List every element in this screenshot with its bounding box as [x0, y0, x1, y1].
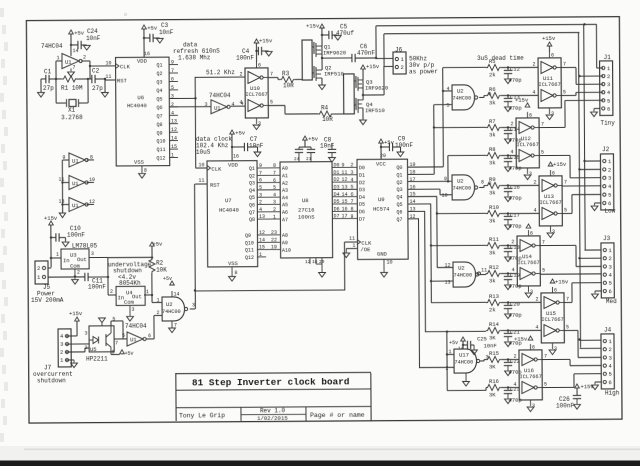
power +15v U16 — [528, 336, 533, 340]
svg-text:D3: D3 — [333, 184, 339, 190]
svg-text:1: 1 — [56, 252, 59, 258]
svg-text:12: 12 — [171, 127, 177, 133]
svg-text:+15v: +15v — [69, 310, 83, 317]
svg-text:14: 14 — [173, 291, 179, 297]
svg-text:+15v: +15v — [542, 35, 556, 42]
svg-text:U2: U2 — [458, 264, 465, 271]
svg-text:5: 5 — [566, 324, 569, 330]
svg-text:HC4040: HC4040 — [219, 206, 239, 213]
svg-text:3: 3 — [60, 341, 63, 348]
inverter bank U1d — [69, 197, 85, 211]
svg-text:U1: U1 — [65, 58, 72, 65]
svg-text:3: 3 — [259, 192, 262, 198]
resistor R7 — [486, 124, 501, 130]
wire U11 pin5 to J1 pin4 — [561, 94, 576, 96]
svg-text:CLK: CLK — [120, 63, 131, 70]
U8 enable pins — [309, 258, 311, 264]
svg-text:16: 16 — [342, 206, 348, 212]
svg-text:13: 13 — [341, 184, 347, 190]
svg-text:Q9: Q9 — [245, 233, 251, 239]
svg-text:7: 7 — [564, 179, 567, 185]
svg-text:100nF: 100nF — [556, 402, 574, 409]
power +15v C10 — [49, 221, 54, 225]
svg-text:C3: C3 — [161, 22, 169, 29]
power +15v U10 — [254, 39, 259, 43]
svg-text:RST: RST — [117, 77, 128, 84]
svg-text:10nF: 10nF — [159, 29, 174, 36]
svg-text:VDD: VDD — [228, 161, 239, 168]
svg-text:Q9: Q9 — [157, 130, 163, 136]
svg-text:IRF9620: IRF9620 — [365, 84, 388, 91]
svg-text:J3: J3 — [603, 235, 611, 242]
capacitor C5 — [322, 34, 329, 36]
svg-text:2: 2 — [156, 310, 159, 316]
svg-text:VSS: VSS — [228, 260, 239, 267]
gate U2a 74HC00 — [452, 85, 475, 110]
svg-text:7: 7 — [544, 354, 547, 360]
svg-text:Q3: Q3 — [249, 181, 255, 187]
wire U11 pin7 to J1 pin3 — [561, 66, 576, 68]
svg-text:2: 2 — [60, 349, 63, 356]
svg-text:Low: Low — [604, 207, 615, 214]
gate U17 74HC00 — [454, 349, 477, 373]
wire U14 pin5 to J3 pin4 — [540, 273, 601, 275]
svg-text:11: 11 — [481, 267, 487, 273]
capacitor C14 — [501, 126, 512, 128]
svg-text:2: 2 — [533, 179, 536, 185]
svg-text:2k: 2k — [489, 306, 496, 313]
svg-text:9: 9 — [259, 163, 262, 169]
svg-text:Q12: Q12 — [156, 156, 165, 162]
svg-text:3K: 3K — [489, 363, 496, 370]
transistor Q4 IRF510 — [355, 98, 357, 110]
wire U13 pin5 to J2 pin5 — [562, 212, 572, 214]
resistor R12 — [486, 270, 501, 276]
ground J1 pin6 — [594, 107, 599, 109]
svg-text:2: 2 — [513, 354, 516, 360]
ground C1 — [40, 79, 42, 92]
svg-text:Com: Com — [124, 299, 135, 306]
wire Q0 to gate — [442, 90, 444, 92]
power +15v U12 — [525, 103, 530, 107]
svg-text:11: 11 — [341, 170, 347, 176]
ground U16 pin3 — [527, 407, 534, 412]
title block box — [176, 372, 371, 373]
wire U3 out to U4 — [107, 258, 109, 295]
svg-text:10nF: 10nF — [249, 142, 264, 149]
counter U7 HC4040 — [207, 161, 258, 267]
resistor R15 — [486, 356, 501, 362]
gate drive box upper — [302, 40, 312, 80]
svg-text:13: 13 — [444, 279, 450, 285]
svg-text:6: 6 — [608, 379, 611, 386]
svg-text:2: 2 — [77, 270, 80, 276]
svg-text:A6: A6 — [282, 210, 288, 216]
capacitor C16 — [501, 184, 512, 186]
svg-text:9: 9 — [444, 176, 447, 182]
svg-text:Q5: Q5 — [249, 195, 255, 201]
svg-text:R8: R8 — [489, 146, 496, 153]
svg-text:10: 10 — [105, 60, 111, 66]
svg-text:2: 2 — [445, 365, 448, 371]
svg-text:10uS: 10uS — [196, 149, 211, 156]
ground U1 pin7 — [70, 68, 72, 71]
svg-text:U1: U1 — [72, 202, 79, 209]
svg-text:Q2: Q2 — [157, 71, 163, 77]
svg-text:R7: R7 — [489, 118, 496, 125]
svg-text:4: 4 — [273, 192, 276, 198]
svg-text:3: 3 — [205, 102, 208, 108]
svg-text:4: 4 — [447, 86, 450, 92]
svg-text:11: 11 — [349, 236, 355, 242]
svg-text:470p: 470p — [509, 312, 522, 319]
svg-text:27p: 27p — [92, 85, 103, 92]
power +5v U9 — [379, 139, 384, 143]
svg-text:IRF510: IRF510 — [324, 70, 344, 77]
svg-text:8: 8 — [481, 179, 484, 185]
wire Q6 bus — [408, 210, 425, 212]
inverter bank U1b — [69, 153, 85, 167]
svg-text:12: 12 — [305, 259, 311, 265]
svg-text:+5v: +5v — [163, 276, 172, 282]
svg-text:100nF: 100nF — [395, 142, 413, 149]
wire U15 pin5 to J4 pin3 — [564, 329, 578, 331]
svg-text:4: 4 — [513, 382, 516, 388]
wire rail to J3 pin1 — [585, 249, 601, 251]
svg-text:2: 2 — [532, 61, 535, 67]
ground J3 pin6 — [595, 290, 601, 292]
wire U14 pin7 to J3 pin3 — [540, 244, 576, 246]
svg-text:470p: 470p — [508, 105, 521, 112]
svg-text:6: 6 — [532, 345, 535, 351]
driver U13 ICL7667 — [539, 176, 562, 226]
svg-text:Q8: Q8 — [249, 217, 255, 223]
capacitor C22 — [501, 358, 512, 360]
svg-text:100nF: 100nF — [67, 231, 85, 238]
wire rail to J3 pin2 — [578, 257, 580, 259]
svg-text:2: 2 — [536, 296, 539, 302]
svg-text:VDD: VDD — [137, 57, 148, 64]
svg-text:4: 4 — [240, 99, 243, 105]
wire clk to U6 — [90, 65, 115, 67]
wire Q3 bus — [407, 188, 439, 190]
capacitor C15 — [501, 154, 512, 156]
wire rail to J4 pin2 — [580, 347, 601, 349]
ground U5 top — [101, 322, 103, 325]
svg-text:21: 21 — [306, 156, 312, 162]
svg-text:U12: U12 — [521, 135, 531, 142]
capacitor C4 — [256, 50, 258, 52]
svg-text:R12: R12 — [489, 264, 499, 271]
capacitor C9 — [381, 146, 389, 148]
svg-text:9: 9 — [342, 162, 345, 168]
svg-text:A7: A7 — [282, 217, 288, 223]
svg-text:U2: U2 — [166, 301, 173, 308]
scan left edge marks — [0, 8, 4, 17]
svg-text:7: 7 — [72, 64, 75, 70]
svg-text:+5v: +5v — [147, 24, 158, 31]
svg-text:2: 2 — [351, 163, 354, 169]
svg-text:Q10: Q10 — [156, 139, 165, 145]
power +5v R2 — [150, 242, 155, 246]
svg-text:U8: U8 — [302, 197, 309, 204]
svg-text:13: 13 — [259, 214, 265, 220]
svg-text:ICL7667: ICL7667 — [539, 200, 561, 206]
EPROM U8 27C16 — [280, 162, 333, 258]
svg-text:9: 9 — [171, 60, 174, 66]
ground C2 node — [104, 78, 106, 80]
svg-text:2: 2 — [607, 73, 610, 80]
svg-text:8: 8 — [144, 167, 147, 173]
wire rail to J1 pin2 — [580, 75, 603, 77]
svg-text:R4: R4 — [321, 104, 329, 111]
svg-text:U1: U1 — [72, 180, 79, 187]
ground U14 pin3 — [525, 293, 532, 298]
svg-text:D1: D1 — [359, 173, 365, 179]
svg-text:3k: 3k — [489, 131, 496, 138]
svg-text:8: 8 — [234, 270, 237, 276]
svg-text:3k: 3k — [489, 277, 496, 284]
svg-text:+5v: +5v — [449, 340, 458, 346]
capacitor C20 — [501, 301, 512, 303]
svg-text:RST: RST — [210, 182, 221, 189]
svg-text:+5v: +5v — [308, 135, 319, 142]
svg-text:ICL7667: ICL7667 — [538, 82, 560, 88]
svg-text:1: 1 — [352, 243, 355, 249]
svg-text:3: 3 — [608, 354, 611, 361]
svg-text:100nF: 100nF — [88, 283, 106, 290]
svg-text:D3: D3 — [359, 187, 365, 193]
resistor R1 — [56, 78, 62, 80]
svg-text:2: 2 — [511, 239, 514, 245]
svg-text:3: 3 — [192, 302, 195, 308]
svg-text:HC4040: HC4040 — [127, 102, 147, 109]
optocoupler U5 HP2211 — [89, 326, 114, 352]
wire Q1 drain node — [321, 46, 323, 70]
capacitor C17 — [501, 212, 512, 214]
svg-text:10nF: 10nF — [86, 35, 101, 42]
svg-text:IRF9620: IRF9620 — [323, 49, 346, 56]
svg-text:Q7: Q7 — [249, 210, 255, 216]
svg-text:11: 11 — [199, 178, 205, 184]
svg-text:Q6: Q6 — [249, 202, 255, 208]
svg-text:6: 6 — [552, 170, 555, 176]
wire inverter to gate — [153, 316, 155, 339]
svg-text:74HC04: 74HC04 — [209, 92, 231, 99]
svg-text:7: 7 — [566, 296, 569, 302]
resistor R4 — [318, 111, 333, 117]
scan bottom light strip — [0, 446, 640, 461]
capacitor C3 — [144, 37, 150, 39]
svg-text:15V 200mA: 15V 200mA — [31, 297, 64, 304]
resistor R2 — [149, 258, 155, 273]
svg-text:3.2768: 3.2768 — [61, 114, 83, 121]
ground U3 com — [74, 269, 76, 279]
svg-text:74HC00: 74HC00 — [452, 95, 471, 101]
svg-text:4: 4 — [535, 324, 538, 330]
svg-text:Page # or name: Page # or name — [310, 412, 365, 419]
resistor R13 — [486, 299, 501, 305]
svg-text:+15v: +15v — [553, 161, 567, 168]
wire U16 pin7 to J4 pin4 — [542, 358, 570, 360]
svg-text:470uf: 470uf — [336, 30, 354, 37]
svg-text:5: 5 — [447, 102, 450, 108]
svg-text:+5v: +5v — [124, 351, 133, 357]
svg-text:D4: D4 — [334, 192, 340, 198]
power +15v U15 — [550, 279, 555, 283]
svg-text:J2: J2 — [602, 146, 610, 153]
wire U13 pin7 to J2 pin4 — [562, 185, 600, 187]
svg-text:D0: D0 — [334, 162, 340, 168]
power +15v U13 — [548, 162, 553, 166]
svg-text:D1: D1 — [333, 170, 339, 176]
svg-text:Q4: Q4 — [396, 195, 402, 201]
svg-text:R9: R9 — [489, 176, 496, 183]
svg-text:3k: 3k — [489, 249, 496, 256]
ground J4 pin6 — [595, 381, 601, 383]
wire U15 pin7 to J3 pin5 — [564, 301, 572, 303]
wire RST — [105, 79, 115, 81]
svg-text:R11: R11 — [489, 236, 500, 243]
svg-text:6: 6 — [551, 52, 554, 58]
svg-text:7: 7 — [563, 61, 566, 67]
resistor R14 — [486, 327, 501, 333]
wire 30v rail A2 — [583, 23, 585, 25]
svg-text:Q10: Q10 — [245, 240, 254, 246]
svg-text:as power: as power — [409, 68, 438, 75]
svg-text:Q1: Q1 — [156, 63, 162, 69]
counter U6 HC4040 — [116, 57, 170, 166]
svg-text:+15v: +15v — [44, 215, 58, 222]
svg-text:C17: C17 — [510, 212, 520, 219]
ground Q2 source — [321, 78, 323, 84]
svg-text:6: 6 — [259, 178, 262, 184]
svg-text:5: 5 — [259, 185, 262, 191]
wire rail to J2 pin1 — [583, 160, 585, 162]
svg-text:6: 6 — [258, 63, 261, 69]
svg-text:12: 12 — [444, 262, 450, 268]
svg-text:X1: X1 — [68, 106, 76, 113]
svg-text:1: 1 — [146, 289, 149, 295]
capacitor C10 — [51, 236, 56, 238]
svg-text:U10: U10 — [250, 85, 260, 92]
svg-text:U14: U14 — [522, 253, 533, 260]
ground U13 pin3 — [547, 233, 554, 238]
svg-text:10nF: 10nF — [484, 342, 497, 349]
transistor Q1 IRF9620 — [313, 42, 315, 54]
svg-text:2k: 2k — [489, 71, 496, 78]
svg-text:3K: 3K — [489, 334, 496, 341]
svg-text:5: 5 — [171, 85, 174, 91]
svg-text:74HC00: 74HC00 — [162, 309, 181, 315]
driver U14 ICL7667 — [517, 236, 540, 286]
svg-text:R2: R2 — [156, 259, 164, 266]
svg-text:U1: U1 — [214, 105, 221, 112]
wire shutdown to U9 clk — [195, 289, 345, 292]
wire 51.2kHz to U10 pin2 — [195, 76, 244, 78]
svg-text:2: 2 — [400, 64, 403, 71]
wire 30v rail A — [375, 26, 377, 58]
svg-text:2: 2 — [240, 71, 243, 77]
svg-text:24: 24 — [294, 156, 300, 162]
svg-text:74HC00: 74HC00 — [452, 185, 471, 191]
svg-text:J4: J4 — [604, 326, 612, 333]
svg-text:+15v: +15v — [514, 335, 528, 342]
power +5v osc — [69, 30, 74, 34]
svg-text:74HC00: 74HC00 — [453, 272, 472, 278]
svg-text:ICL7667: ICL7667 — [541, 317, 563, 323]
ground J7 pin1 — [66, 359, 74, 361]
svg-text:6: 6 — [171, 76, 174, 82]
svg-text:7: 7 — [273, 170, 276, 176]
svg-text:3: 3 — [131, 307, 134, 313]
svg-text:A5: A5 — [282, 202, 288, 208]
svg-text:3K: 3K — [489, 391, 496, 398]
svg-text:470p: 470p — [508, 223, 521, 230]
svg-text:17: 17 — [341, 214, 347, 220]
svg-text:6: 6 — [530, 231, 533, 237]
svg-text:7: 7 — [541, 121, 544, 127]
wire U16 pin5 to J4 pin5 — [542, 386, 574, 388]
svg-text:C2: C2 — [92, 67, 100, 74]
resistor R10 — [486, 210, 501, 216]
svg-text:D2: D2 — [359, 180, 365, 186]
ground Q4 source — [362, 108, 364, 119]
svg-text:470p: 470p — [508, 195, 521, 202]
resistor R8 — [486, 152, 501, 158]
svg-text:4: 4 — [510, 149, 513, 155]
svg-text:74HC00: 74HC00 — [454, 359, 473, 365]
svg-text:R16: R16 — [489, 378, 499, 385]
capacitor C8a pin24 — [298, 147, 300, 149]
svg-text:R10: R10 — [489, 204, 499, 211]
svg-text:2: 2 — [259, 200, 262, 206]
transistor Q2 IRF510 — [313, 66, 315, 78]
svg-text:shutdown: shutdown — [37, 377, 66, 384]
svg-text:Q5: Q5 — [156, 97, 162, 103]
resistor R16 — [486, 384, 501, 390]
wire Q4 bus — [408, 195, 437, 197]
svg-text:2: 2 — [37, 265, 40, 272]
svg-text:2: 2 — [510, 121, 513, 127]
svg-text:+5v: +5v — [235, 129, 246, 136]
svg-text:3: 3 — [91, 251, 94, 257]
wire U4 to gate — [152, 301, 162, 303]
svg-text:3: 3 — [84, 330, 87, 336]
U8 data pins to U9 — [332, 166, 357, 168]
svg-text:5: 5 — [273, 185, 276, 191]
svg-text:3k: 3k — [489, 217, 496, 224]
svg-text:R3: R3 — [282, 70, 290, 77]
svg-text:1: 1 — [157, 297, 160, 303]
svg-text:U9: U9 — [378, 196, 385, 203]
svg-text:6: 6 — [554, 287, 557, 293]
svg-text:1.638 Mhz: 1.638 Mhz — [178, 54, 211, 61]
svg-text:16: 16 — [233, 153, 239, 159]
svg-text:Tony Le Grip: Tony Le Grip — [179, 412, 225, 419]
capacitor C23 — [501, 386, 512, 388]
svg-text:Com: Com — [70, 262, 81, 269]
svg-text:R5: R5 — [489, 58, 496, 65]
svg-text:C24: C24 — [87, 28, 98, 35]
ground U12 pin3 — [524, 175, 531, 180]
svg-text:D7: D7 — [359, 217, 365, 223]
svg-text:1: 1 — [448, 349, 451, 355]
wire Q0 bus — [408, 166, 443, 168]
resistor R9 — [486, 182, 501, 188]
svg-text:51.2 Khz: 51.2 Khz — [206, 69, 235, 76]
capacitor C18 — [501, 244, 512, 246]
